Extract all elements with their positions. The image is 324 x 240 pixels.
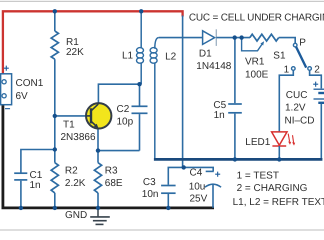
capacitor C2 (117, 84, 148, 150)
potentiometer VR1 100E (242, 34, 279, 80)
wire base node (R1-R2 vertical) (54, 116, 56, 163)
svg-text:CUC: CUC (286, 90, 308, 101)
svg-text:T1: T1 (63, 119, 75, 130)
capacitor C3 (142, 177, 176, 208)
svg-text:22K: 22K (66, 47, 84, 58)
wire base lead (55, 115, 87, 117)
svg-text:P: P (299, 38, 306, 49)
svg-text:1: 1 (284, 64, 290, 75)
svg-text:R2: R2 (65, 165, 78, 176)
junction dot black rail R3 (96, 206, 100, 210)
svg-text:10u: 10u (189, 182, 206, 193)
svg-text:L2: L2 (165, 52, 177, 63)
battery CUC 1.2V Ni-Cd (285, 80, 324, 160)
junction dot black rail C1 (19, 206, 23, 210)
junction dot D1 out b (239, 35, 243, 39)
connector CON1 (1, 64, 44, 116)
svg-text:10p: 10p (117, 117, 134, 128)
svg-text:25V: 25V (190, 193, 208, 204)
junction dot black rail R2 (53, 206, 57, 210)
svg-text:−: − (5, 104, 11, 115)
switch S1 (273, 38, 320, 76)
junction dot filter caps (182, 165, 186, 169)
svg-text:L1, L2 = REFR TEXT: L1, L2 = REFR TEXT (233, 197, 324, 208)
svg-text:C2: C2 (117, 104, 130, 115)
LED LED1 (245, 132, 295, 160)
capacitor C5 (213, 38, 241, 160)
junction dot mid rail LED (277, 157, 281, 161)
inductor L2 (150, 38, 177, 160)
wire emitter (97, 128, 99, 150)
svg-text:1.2V: 1.2V (285, 102, 306, 113)
svg-text:+: + (215, 170, 221, 181)
svg-text:1n: 1n (30, 180, 41, 191)
svg-text:C1: C1 (30, 170, 43, 181)
resistor R2 (51, 163, 86, 208)
svg-text:S1: S1 (273, 51, 286, 62)
wire collector (98, 84, 139, 103)
junction dot collector L1 (137, 82, 141, 86)
wire L2 to D1 (159, 37, 203, 39)
svg-text:C3: C3 (143, 177, 156, 188)
wire +V red rail (3, 11, 183, 74)
svg-text:10n: 10n (142, 189, 159, 200)
ground GND (65, 209, 110, 224)
resistor R1 (51, 11, 84, 116)
svg-text:VR1: VR1 (245, 57, 265, 68)
svg-text:CUC = CELL UNDER CHARGING: CUC = CELL UNDER CHARGING (189, 12, 324, 23)
junction dot emitter node (96, 148, 100, 152)
junction dot C1 node (53, 147, 57, 151)
junction dot base node (53, 114, 57, 118)
wire C3 C4 bracket (168, 167, 213, 184)
svg-text:2: 2 (314, 64, 320, 75)
wire emitter node horizontal (98, 150, 140, 152)
svg-text:68E: 68E (105, 178, 123, 189)
svg-text:L1: L1 (122, 50, 134, 61)
svg-text:LED1: LED1 (245, 137, 270, 148)
svg-text:GND: GND (65, 210, 87, 221)
svg-text:1N4148: 1N4148 (196, 61, 231, 72)
svg-text:+: + (3, 64, 9, 75)
capacitor C1 (14, 150, 55, 208)
svg-text:2.2K: 2.2K (65, 178, 86, 189)
svg-text:C4: C4 (190, 168, 203, 179)
inductor L1 (122, 11, 144, 84)
junction dot red rail L1 (139, 9, 143, 13)
junction dot mid rail C5 (233, 157, 237, 161)
capacitor C4 10u 25V (189, 168, 221, 208)
svg-text:CON1: CON1 (16, 78, 44, 89)
diode D1 1N4148 (196, 29, 250, 72)
wire mid ground rail (154, 158, 323, 161)
wire switch contact 1 to LED (279, 70, 293, 131)
border frame bottom (0, 229, 324, 231)
wire switch contact 2 to battery (310, 70, 322, 88)
svg-text:2N3866: 2N3866 (61, 132, 96, 143)
svg-text:C5: C5 (213, 100, 226, 111)
svg-text:100E: 100E (245, 70, 269, 81)
svg-text:R3: R3 (105, 165, 118, 176)
wire +V vertical drop to filter caps (182, 16, 184, 168)
junction dot D1 out a (233, 35, 237, 39)
svg-text:6V: 6V (16, 91, 29, 102)
svg-text:1 = TEST: 1 = TEST (237, 171, 279, 182)
svg-text:D1: D1 (199, 49, 212, 60)
resistor R3 (94, 151, 123, 208)
svg-text:2 = CHARGING: 2 = CHARGING (237, 183, 308, 194)
junction dot red rail R1 (53, 9, 57, 13)
transistor T1 2N3866 (61, 103, 112, 143)
border frame top (0, 0, 324, 2)
wire ground black from CON1 and bottom rail (3, 104, 214, 208)
svg-text:NI–CD: NI–CD (285, 116, 315, 127)
junction dot black rail C3 (166, 206, 170, 210)
svg-text:1n: 1n (214, 110, 225, 121)
